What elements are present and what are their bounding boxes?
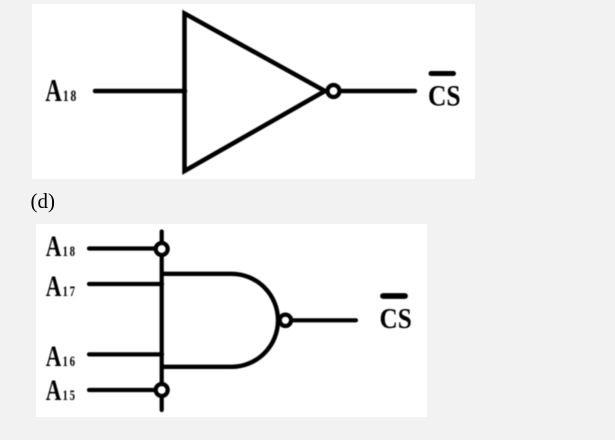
vertical bus wire	[160, 232, 164, 411]
svg-text:A17: A17	[46, 270, 77, 303]
wire A15	[89, 388, 158, 392]
wire A16	[89, 352, 162, 356]
wire A17	[89, 282, 162, 286]
junction circle A18	[156, 243, 168, 255]
svg-text:A18: A18	[46, 230, 77, 263]
svg-text:A18: A18	[45, 73, 78, 109]
svg-text:CS: CS	[380, 302, 412, 334]
overbar of CS	[431, 71, 454, 76]
junction circle A15	[156, 384, 168, 396]
svg-text:CS: CS	[428, 80, 461, 113]
inverter U1 triangle	[185, 13, 326, 171]
caption (d)	[31, 189, 56, 214]
inverter output bubble	[328, 85, 340, 97]
wire input to inverter	[95, 89, 185, 94]
overbar of CS	[383, 293, 405, 299]
wire A18	[89, 246, 158, 250]
nand gate U2 body	[162, 274, 278, 367]
svg-text:A15: A15	[46, 374, 77, 407]
top white panel: inverter circuit	[32, 4, 475, 179]
wire bubble to output label	[294, 318, 357, 322]
nand output bubble	[280, 315, 291, 326]
bottom white panel: NAND gate circuit	[36, 224, 427, 417]
wire bubble to output label	[342, 89, 415, 93]
svg-text:A16: A16	[46, 340, 77, 373]
